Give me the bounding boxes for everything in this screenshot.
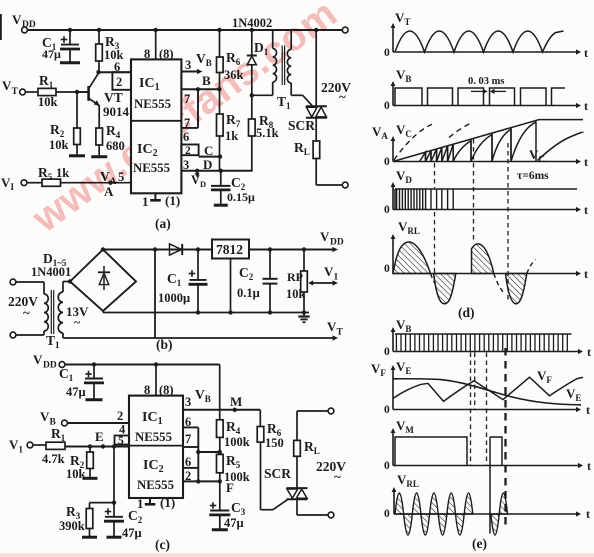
svg-text:t: t	[586, 403, 590, 417]
waveform panel VB axes, diagram d	[392, 85, 394, 106]
wire stub column to F, circuit c	[197, 447, 199, 481]
svg-text:0: 0	[384, 204, 390, 216]
wire 7812 ground pin	[230, 259, 232, 313]
svg-text:7: 7	[184, 116, 190, 130]
svg-text:~: ~	[334, 469, 341, 484]
transformer T1 primary, circuit b	[43, 282, 45, 294]
wire VT tap drop, circuit b	[154, 250, 156, 339]
svg-text:T: T	[337, 328, 344, 338]
junction node M	[233, 408, 237, 412]
wire AC input bottom, circuit b	[16, 334, 44, 336]
svg-text:DD: DD	[330, 238, 344, 248]
resistor R1, circuit a	[25, 91, 38, 93]
capacitor C1, circuit a	[69, 30, 71, 44]
resistor RL, circuit c	[294, 440, 301, 456]
svg-text:~: ~	[23, 305, 30, 320]
resistor R3 390k, circuit c	[89, 503, 91, 509]
svg-text:220V: 220V	[321, 80, 351, 95]
pin 5 stub box, circuit c	[115, 436, 130, 445]
dashed timing line 2, diagram d	[473, 139, 475, 243]
svg-text:1N4002: 1N4002	[232, 16, 272, 30]
svg-text:390k: 390k	[59, 519, 85, 533]
resistor R1 4.7k, circuit c	[33, 444, 46, 446]
svg-text:47μ: 47μ	[66, 385, 86, 399]
svg-text:5: 5	[118, 435, 124, 447]
waveform VRL burst 2 hatched, diagram e	[491, 493, 508, 535]
junction B to pin2 column	[196, 87, 200, 91]
svg-text:T: T	[12, 87, 19, 97]
junction R6 on VDD rail	[217, 28, 221, 32]
svg-text:NE555: NE555	[135, 430, 172, 444]
svg-text:t: t	[586, 507, 590, 521]
waveform panel VRL axes, diagram e	[393, 491, 395, 514]
dashed timing line 3, diagram e	[486, 353, 488, 467]
svg-text:τ=6ms: τ=6ms	[517, 170, 549, 182]
svg-text:SCR: SCR	[288, 118, 315, 133]
svg-text:(d): (d)	[458, 305, 475, 320]
resistor R7, circuit a	[219, 89, 221, 114]
waveform VRL negative lobe 2 hatched, diagram d	[506, 274, 527, 304]
waveform VRL negative lobe 1 hatched, diagram d	[434, 274, 456, 304]
svg-text:1N4001: 1N4001	[31, 265, 71, 279]
wire gate link, circuit c	[261, 509, 274, 511]
wire node B line, circuit a	[181, 88, 219, 90]
node VT terminal, input VT	[20, 89, 26, 95]
op-amp timer IC1 IC2 NE555 box, circuit a	[131, 59, 181, 193]
junction pin8 on VDD rail	[154, 28, 158, 32]
svg-text:7812: 7812	[216, 242, 243, 257]
svg-text:V: V	[40, 409, 50, 424]
waveform VB comb pulses, diagram e	[395, 333, 572, 335]
transformer T1 core, circuit b	[50, 290, 52, 334]
transformer T1 primary, circuit a	[272, 30, 274, 49]
dashed sine continuation 2	[494, 274, 504, 293]
svg-text:V: V	[2, 78, 12, 93]
waveform VD dense pulses	[397, 189, 454, 210]
waveform VRL sine burst 1 hatched, diagram e	[395, 493, 473, 535]
waveform VRL hump 1 hatched, diagram d	[393, 242, 431, 274]
thyristor SCR triac, circuit a	[315, 30, 317, 106]
resistor R2, circuit a	[76, 92, 78, 128]
svg-text:DD: DD	[22, 20, 36, 30]
pin 2 wire F line, circuit c	[183, 480, 220, 482]
svg-text:t: t	[587, 459, 591, 473]
svg-text:47μ: 47μ	[42, 47, 61, 61]
svg-text:V: V	[12, 12, 22, 27]
svg-text:(a): (a)	[155, 216, 171, 231]
wire pin 3 M line, circuit c	[183, 409, 260, 411]
node VI terminal, input V1	[21, 180, 27, 186]
svg-text:B: B	[202, 73, 211, 88]
svg-text:10k: 10k	[286, 287, 306, 301]
junction RP top, circuit b	[302, 247, 306, 251]
ground symbol, circuit b	[303, 313, 305, 317]
svg-text:NE555: NE555	[137, 478, 174, 492]
pin 2 stub box of IC2, circuit a	[181, 145, 198, 156]
svg-text:1k: 1k	[56, 166, 69, 180]
svg-text:t: t	[584, 99, 588, 113]
svg-text:V: V	[33, 352, 43, 367]
capacitor C2, circuit a	[220, 171, 222, 185]
svg-text:0: 0	[384, 263, 390, 275]
junction VT tap on rail	[153, 247, 157, 251]
wire VDD drop to R4, circuit c	[219, 365, 221, 420]
dashed timing line 4 thick, diagram e	[504, 348, 506, 527]
svg-text:3: 3	[183, 158, 189, 172]
wire node D line pin 3 of IC2, circuit a	[181, 170, 252, 172]
svg-text:I: I	[11, 182, 15, 192]
pin 3 output wire with arrow, node VB, circuit a	[181, 71, 197, 73]
svg-text:0: 0	[384, 156, 390, 168]
junction D to C2	[219, 169, 223, 173]
capacitor C2 0.1u, circuit b	[269, 250, 271, 279]
wire pin 6 of IC1, circuit a	[99, 71, 132, 73]
svg-text:7: 7	[185, 432, 191, 446]
wire VDD top, circuit c	[65, 364, 220, 366]
svg-text:E: E	[95, 429, 104, 444]
svg-text:NE555: NE555	[134, 97, 171, 111]
capacitor C1 47u, circuit c	[93, 365, 95, 378]
wire DC top rail, circuit b	[103, 249, 334, 251]
node output terminal upper, circuit a	[342, 27, 348, 33]
svg-text:0. 03 ms: 0. 03 ms	[468, 76, 504, 87]
junction C1 top, circuit c	[92, 362, 96, 366]
svg-text:0.15μ: 0.15μ	[227, 190, 255, 204]
dashed timing line 3, diagram d	[507, 143, 509, 301]
dashed timing line 2, diagram e	[474, 353, 476, 410]
svg-text:(b): (b)	[156, 337, 173, 352]
svg-text:NE555: NE555	[133, 161, 170, 175]
transformer T1 core	[281, 46, 283, 86]
thyristor SCR triac, circuit c	[296, 411, 298, 488]
resistor R4, circuit a	[96, 128, 103, 145]
svg-text:(e): (e)	[472, 536, 487, 551]
svg-text:(1): (1)	[160, 495, 175, 510]
svg-text:~: ~	[74, 315, 81, 329]
resistor R4 100k, circuit c	[217, 420, 224, 438]
waveform panel VB axes, diagram e	[392, 331, 394, 352]
diode on rail, circuit b	[170, 244, 182, 255]
svg-text:36k: 36k	[224, 68, 244, 82]
node V1 terminal, circuit c	[27, 442, 33, 448]
transistor VT 9014	[87, 86, 90, 101]
pin 8 lead, circuit c	[155, 365, 157, 396]
svg-text:1: 1	[137, 496, 144, 511]
svg-text:0: 0	[384, 404, 390, 416]
junction B to R7	[217, 87, 221, 91]
pin 1 ground stub, circuit a	[154, 193, 156, 199]
svg-text:0: 0	[384, 100, 390, 112]
junction VT collector node	[96, 70, 100, 74]
wire ground mid rail, circuit b	[102, 311, 104, 313]
svg-text:t: t	[584, 155, 588, 169]
junction R2 base node	[75, 90, 79, 94]
node VDD terminal, circuit c	[59, 362, 65, 368]
svg-text:4.7k: 4.7k	[42, 452, 65, 466]
decorative watermark omitted from labels	[24, 0, 346, 241]
dashed timing line 1, diagram d	[434, 163, 436, 188]
junction C to C2 column	[218, 154, 222, 158]
junction C2 top, circuit b	[268, 247, 272, 251]
dashed charge curve 2	[449, 123, 472, 138]
dashed sine continuation 3	[527, 260, 536, 274]
svg-text:2: 2	[185, 469, 191, 483]
junction C1 on VDD rail	[68, 28, 72, 32]
node VB terminal, circuit c	[62, 420, 68, 426]
svg-text:M: M	[230, 394, 242, 409]
pin 1 ground stub, circuit c	[149, 498, 151, 504]
wire R4R5 junction link, circuit c	[198, 451, 220, 453]
waveform VM gated square, diagram e	[395, 437, 467, 466]
junction SCR column on rail	[314, 28, 318, 32]
svg-text:1k: 1k	[225, 129, 238, 143]
junction C1 bottom, circuit b	[196, 310, 200, 314]
junction D1 anode node	[250, 93, 254, 97]
junction pin 8 top, circuit c	[154, 362, 158, 366]
node AC terminal lower, circuit b	[10, 332, 16, 338]
wire to upper output terminal, circuit c	[297, 410, 328, 412]
svg-text:1000μ: 1000μ	[158, 291, 190, 305]
capacitor C1 1000u, circuit b	[197, 250, 199, 280]
svg-text:100k: 100k	[224, 435, 250, 449]
svg-text:t: t	[584, 203, 588, 217]
svg-text:V: V	[320, 229, 330, 244]
resistor R8, circuit a	[251, 95, 253, 119]
svg-text:2: 2	[117, 409, 123, 423]
timer IC1 IC2 NE555 box, circuit c	[129, 396, 183, 498]
waveform VT rectified sine humps	[395, 31, 564, 52]
svg-text:D: D	[203, 157, 212, 172]
wire RP wiper to V1 output	[310, 282, 334, 284]
node E junction	[88, 444, 92, 448]
svg-text:680: 680	[106, 139, 125, 153]
svg-text:t: t	[587, 345, 591, 359]
resistor R5 100k, circuit c	[219, 437, 221, 454]
resistor R3, circuit a	[98, 30, 100, 44]
transformer T1 secondary, circuit a	[290, 30, 292, 49]
node VDD terminal, circuit a	[22, 27, 28, 33]
node output terminal lower, circuit a	[342, 182, 348, 188]
node AC terminal upper, circuit b	[10, 279, 16, 285]
wire node C line, circuit a	[199, 156, 220, 158]
regulator 7812 box	[212, 240, 249, 259]
svg-text:220V: 220V	[316, 459, 346, 474]
transformer T1 secondary 13V, circuit b	[62, 282, 64, 293]
waveform panel VRL axes, diagram d	[392, 238, 394, 274]
resistor R6 150, circuit c	[259, 410, 261, 427]
capacitor C2 47u, circuit c	[105, 516, 123, 518]
svg-text:7: 7	[184, 92, 190, 106]
dashed sine continuation 1	[431, 274, 438, 289]
svg-text:0: 0	[384, 47, 390, 59]
waveform VRL hump 2 hatched, diagram d	[472, 244, 494, 274]
resistor R2 10k, circuit c	[89, 447, 91, 453]
pin 2 stub box of IC1, circuit a	[112, 72, 131, 90]
svg-text:10k: 10k	[49, 138, 69, 152]
svg-text:0: 0	[384, 460, 390, 472]
svg-text:3: 3	[185, 58, 191, 72]
svg-text:0: 0	[384, 346, 390, 358]
pin 8 lead, circuit a	[155, 30, 157, 59]
svg-text:V: V	[1, 175, 11, 190]
svg-text:(1): (1)	[165, 193, 180, 208]
svg-text:C: C	[204, 143, 213, 158]
wire to lower output terminal, circuit c	[297, 514, 328, 516]
junction D1 on VDD rail	[250, 28, 254, 32]
svg-text:A: A	[104, 184, 114, 199]
svg-text:6: 6	[185, 415, 191, 429]
waveform VD pulse train top line	[395, 188, 577, 190]
svg-text:9014: 9014	[103, 104, 130, 119]
waveform VC tail curve	[538, 132, 584, 160]
waveform VB square pulses, diagram d	[395, 88, 565, 106]
svg-text:0: 0	[384, 508, 390, 520]
junction VD probe on D line	[195, 169, 199, 173]
waveform VC sawtooth	[420, 122, 537, 162]
waveform panel VE VF axes, diagram e	[392, 369, 394, 410]
wire VT bottom rail, circuit b	[63, 337, 334, 339]
waveform panel VT axes, diagram d	[392, 27, 394, 52]
potentiometer RP 10k, circuit b	[303, 250, 305, 272]
resistor R6, circuit a	[219, 30, 221, 57]
svg-text:10k: 10k	[38, 95, 58, 109]
wire pin5 to E to C2, circuit c	[113, 445, 115, 517]
svg-text:5: 5	[118, 170, 124, 184]
junction C1 top, circuit b	[196, 247, 200, 251]
svg-text:t: t	[584, 46, 588, 60]
wire secondary top to bridge left vertex	[63, 281, 70, 283]
svg-text:2: 2	[116, 75, 122, 89]
junction R3 on VDD rail	[97, 28, 101, 32]
sawtooth vertical drops	[425, 153, 427, 161]
svg-text:SCR: SCR	[264, 466, 291, 481]
wire SCR gate, circuit a	[291, 94, 303, 96]
wire primary bottom to D1	[252, 94, 273, 96]
svg-text:VT: VT	[104, 90, 123, 105]
svg-text:47μ: 47μ	[122, 526, 142, 540]
svg-text:F: F	[226, 480, 234, 495]
wire VB to pin 2, circuit c	[67, 422, 129, 424]
svg-text:3: 3	[185, 395, 191, 409]
svg-text:V: V	[9, 437, 19, 452]
resistor R5, circuit a	[27, 182, 42, 184]
svg-text:10k: 10k	[66, 467, 86, 481]
svg-text:6: 6	[185, 455, 191, 469]
svg-text:150: 150	[265, 436, 284, 450]
wire R3 to C2 node, circuit c	[90, 502, 115, 504]
waveform VE smooth curve	[393, 379, 581, 405]
bridge inner diode symbol	[103, 266, 105, 290]
svg-text:(c): (c)	[155, 537, 170, 552]
capacitor C3 47u, circuit c	[219, 481, 221, 509]
svg-text:5.1k: 5.1k	[256, 126, 279, 140]
junction C2 node	[112, 500, 116, 504]
dashed timing line 1, diagram e	[470, 353, 472, 467]
svg-text:t: t	[584, 267, 588, 281]
pins 6-7 stub box, circuit c	[197, 427, 199, 447]
bridge rectifier D1-5 1N4001, circuit b	[70, 250, 136, 312]
svg-text:V: V	[324, 264, 334, 279]
svg-text:RP: RP	[287, 270, 303, 284]
wire VDD rail, circuit a	[27, 29, 342, 31]
svg-text:~: ~	[339, 89, 346, 104]
svg-text:6: 6	[183, 130, 189, 144]
svg-text:1: 1	[334, 273, 339, 283]
waveform panel VC axes, diagram d	[392, 140, 394, 162]
waveform VA ramp line	[393, 120, 583, 162]
node A junction on pin5 wire	[108, 181, 112, 185]
pin 6 stub IC2, circuit c	[183, 467, 198, 469]
svg-text:2: 2	[185, 145, 191, 157]
dashed charge curve 1	[394, 124, 432, 160]
junction bridge top vertex	[101, 247, 105, 251]
svg-text:1: 1	[142, 194, 149, 209]
svg-text:1: 1	[19, 445, 24, 455]
svg-text:DD: DD	[43, 361, 57, 371]
svg-text:(8): (8)	[159, 47, 174, 61]
pins 7-7 stub box, circuit a	[197, 89, 199, 128]
svg-text:V: V	[327, 319, 337, 334]
waveform panel VD axes, diagram d	[392, 186, 394, 210]
junction node F	[218, 479, 222, 483]
svg-text:47μ: 47μ	[224, 516, 244, 530]
solid reference line, diagram e	[489, 437, 491, 534]
wire AC input top, circuit b	[16, 281, 44, 283]
waveform panel VM axes, diagram e	[392, 432, 394, 466]
waveform VF jagged curve	[393, 377, 583, 401]
svg-text:0.1μ: 0.1μ	[237, 286, 260, 300]
resistor RL, circuit a	[313, 141, 320, 159]
svg-text:8: 8	[144, 47, 150, 61]
